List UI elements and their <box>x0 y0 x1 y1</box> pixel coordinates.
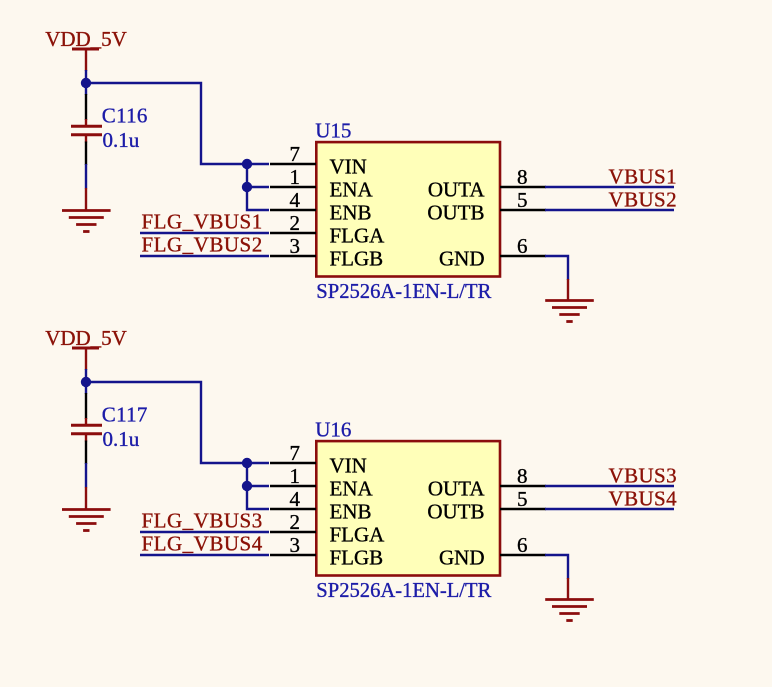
wire C116 to ground (red) <box>85 188 87 210</box>
svg-text:GND: GND <box>439 247 485 271</box>
wire GND drop (red) <box>567 279 569 300</box>
svg-text:VIN: VIN <box>330 155 367 179</box>
svg-text:VIN: VIN <box>330 454 367 478</box>
svg-text:C116: C116 <box>102 104 148 128</box>
pin 8 OUTA of U15 <box>428 165 546 201</box>
svg-text:4: 4 <box>290 487 301 511</box>
wire FLG_VBUS2 to FLGB pin 3 <box>140 255 269 257</box>
svg-text:1: 1 <box>290 464 301 488</box>
svg-text:ENB: ENB <box>330 201 372 225</box>
wire ENA/ENB branch <box>247 164 269 210</box>
wire ENA/ENB branch <box>247 463 269 509</box>
pin 4 ENB of U16 <box>270 487 372 523</box>
IC U15 SP2526A-1EN-L/TR body <box>316 142 500 276</box>
wire OUTA to VBUS3 <box>545 485 674 487</box>
wire C116 to ground (blue) <box>85 164 87 189</box>
junction dot ENA/ENB <box>242 481 252 491</box>
svg-text:VDD_5V: VDD_5V <box>45 27 127 51</box>
wire VDD_5V to VIN pin 7 <box>86 83 269 164</box>
svg-text:1: 1 <box>290 165 301 189</box>
wire to ENA pin 1 <box>247 485 269 487</box>
svg-text:3: 3 <box>290 234 301 258</box>
junction dot ENA/ENB <box>242 182 252 192</box>
svg-text:3: 3 <box>290 533 301 557</box>
svg-text:VBUS3: VBUS3 <box>609 464 678 488</box>
svg-text:FLGA: FLGA <box>330 523 386 547</box>
pin 2 FLGA of U16 <box>270 510 385 546</box>
svg-text:SP2526A-1EN-L/TR: SP2526A-1EN-L/TR <box>316 580 491 602</box>
wire to ENA pin 1 <box>247 186 269 188</box>
svg-text:ENB: ENB <box>330 500 372 524</box>
wire C117 to ground (blue) <box>85 463 87 488</box>
svg-text:4: 4 <box>290 188 301 212</box>
pin 2 FLGA of U15 <box>270 211 385 247</box>
wire GND pin to ground (blue) <box>545 555 568 579</box>
power port VDD_5V (U16 block) <box>45 326 127 370</box>
svg-text:FLGB: FLGB <box>330 247 384 271</box>
ground symbol right (U16 block) <box>545 600 594 621</box>
wire OUTA to VBUS1 <box>545 186 674 188</box>
wire junction to C117 (black) <box>85 393 87 419</box>
junction dot VIN/ENA branch <box>242 458 252 468</box>
capacitor C116 0.1u <box>71 104 148 153</box>
pin 1 ENA of U15 <box>270 165 373 201</box>
svg-text:5: 5 <box>517 487 528 511</box>
svg-text:6: 6 <box>517 234 528 258</box>
svg-text:VDD_5V: VDD_5V <box>45 326 127 350</box>
wire C117 to ground (black) <box>85 441 87 465</box>
svg-text:FLGA: FLGA <box>330 224 386 248</box>
wire FLG_VBUS3 to FLGA pin 2 <box>140 531 269 533</box>
svg-text:C117: C117 <box>102 403 148 427</box>
wire VDD_5V stub to junction <box>85 369 87 394</box>
ground symbol left (U16 block) <box>62 510 111 531</box>
svg-text:2: 2 <box>290 211 301 235</box>
pin 5 OUTB of U16 <box>427 487 546 523</box>
svg-text:VBUS4: VBUS4 <box>609 487 678 511</box>
svg-text:U15: U15 <box>315 119 351 143</box>
wire OUTB to VBUS4 <box>545 508 674 510</box>
wire VDD_5V stub to junction <box>85 70 87 95</box>
svg-text:OUTA: OUTA <box>428 477 485 501</box>
pin 7 VIN of U15 <box>270 142 367 178</box>
svg-text:OUTB: OUTB <box>427 201 484 225</box>
svg-text:FLG_VBUS4: FLG_VBUS4 <box>142 532 263 556</box>
wire FLG_VBUS1 to FLGA pin 2 <box>140 232 269 234</box>
junction dot VIN/ENA branch <box>242 159 252 169</box>
svg-text:7: 7 <box>290 441 301 465</box>
svg-text:ENA: ENA <box>330 178 374 202</box>
pin 7 VIN of U16 <box>270 441 367 477</box>
wire FLG_VBUS4 to FLGB pin 3 <box>140 554 269 556</box>
pin 8 OUTA of U16 <box>428 464 546 500</box>
svg-text:GND: GND <box>439 546 485 570</box>
svg-text:FLG_VBUS1: FLG_VBUS1 <box>142 210 263 234</box>
svg-text:U16: U16 <box>315 418 351 442</box>
svg-text:8: 8 <box>517 165 528 189</box>
svg-text:0.1u: 0.1u <box>103 427 140 451</box>
ground symbol right (U15 block) <box>545 301 594 322</box>
svg-text:7: 7 <box>290 142 301 166</box>
svg-text:0.1u: 0.1u <box>103 128 140 152</box>
wire VDD_5V to VIN pin 7 <box>86 382 269 463</box>
junction dot VDD node U16 <box>81 377 91 387</box>
svg-text:FLG_VBUS2: FLG_VBUS2 <box>142 233 263 257</box>
svg-text:8: 8 <box>517 464 528 488</box>
wire GND drop (red) <box>567 578 569 599</box>
svg-text:SP2526A-1EN-L/TR: SP2526A-1EN-L/TR <box>316 281 491 303</box>
pin 4 ENB of U15 <box>270 188 372 224</box>
pin 5 OUTB of U15 <box>427 188 546 224</box>
svg-text:FLG_VBUS3: FLG_VBUS3 <box>142 509 263 533</box>
svg-text:ENA: ENA <box>330 477 374 501</box>
pin 3 FLGB of U15 <box>270 234 383 270</box>
svg-text:VBUS1: VBUS1 <box>609 165 678 189</box>
svg-text:VBUS2: VBUS2 <box>609 188 678 212</box>
svg-text:6: 6 <box>517 533 528 557</box>
svg-text:OUTB: OUTB <box>427 500 484 524</box>
pin 3 FLGB of U16 <box>270 533 383 569</box>
IC U16 SP2526A-1EN-L/TR body <box>316 441 500 575</box>
svg-text:5: 5 <box>517 188 528 212</box>
capacitor C117 0.1u <box>71 403 148 452</box>
junction dot VDD node U15 <box>81 78 91 88</box>
wire GND pin to ground (blue) <box>545 256 568 280</box>
svg-text:2: 2 <box>290 510 301 534</box>
ground symbol left (U15 block) <box>62 211 111 232</box>
pin 6 GND of U16 <box>439 533 546 569</box>
pin 6 GND of U15 <box>439 234 546 270</box>
power port VDD_5V (U15 block) <box>45 27 127 71</box>
wire OUTB to VBUS2 <box>545 209 674 211</box>
svg-text:FLGB: FLGB <box>330 546 384 570</box>
wire C116 to ground (black) <box>85 142 87 166</box>
svg-text:OUTA: OUTA <box>428 178 485 202</box>
pin 1 ENA of U16 <box>270 464 373 500</box>
wire C117 to ground (red) <box>85 487 87 509</box>
wire junction to C116 (black) <box>85 94 87 120</box>
